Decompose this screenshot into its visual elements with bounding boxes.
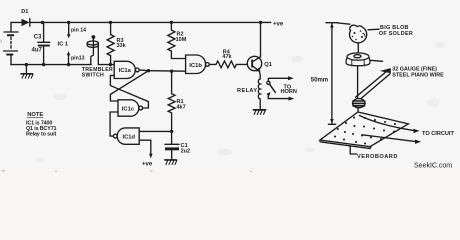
svg-text:IC1a: IC1a <box>119 68 132 74</box>
svg-text:IC1c: IC1c <box>122 106 135 112</box>
svg-text:STEEL PIANO WIRE: STEEL PIANO WIRE <box>392 73 444 79</box>
svg-text:HORN: HORN <box>281 89 297 95</box>
svg-text:D1: D1 <box>21 9 28 15</box>
svg-text:33k: 33k <box>117 43 127 49</box>
svg-text:NOTE: NOTE <box>27 112 43 118</box>
svg-text:IC 1: IC 1 <box>58 42 69 48</box>
svg-text:BIG BLOB: BIG BLOB <box>380 25 409 31</box>
svg-text:TO CIRCUIT: TO CIRCUIT <box>422 131 454 137</box>
svg-text:SWITCH: SWITCH <box>82 72 104 78</box>
svg-text:IC1d: IC1d <box>123 135 136 141</box>
svg-text:+ve: +ve <box>273 22 284 28</box>
svg-text:SeekIC.com: SeekIC.com <box>414 163 452 170</box>
svg-text:pin13: pin13 <box>71 55 85 61</box>
svg-text:+ve: +ve <box>142 162 153 168</box>
svg-text:4k7: 4k7 <box>177 105 186 111</box>
svg-text:32 GAUGE (FINE): 32 GAUGE (FINE) <box>392 66 437 72</box>
svg-text:VEROBOARD: VEROBOARD <box>357 154 398 160</box>
svg-text:RELAY: RELAY <box>237 88 257 94</box>
svg-text:C3: C3 <box>34 35 42 41</box>
svg-text:OF SOLDER: OF SOLDER <box>379 31 413 37</box>
svg-text:2u2: 2u2 <box>181 149 190 155</box>
svg-text:50mm: 50mm <box>311 77 328 83</box>
svg-text:IC1b: IC1b <box>189 63 202 69</box>
svg-text:10M: 10M <box>176 37 187 43</box>
svg-text:47k: 47k <box>222 54 232 60</box>
svg-text:Q1: Q1 <box>264 62 273 68</box>
svg-text:Relay to suit: Relay to suit <box>26 132 56 138</box>
svg-text:pin 14: pin 14 <box>71 28 86 34</box>
svg-text:4u7: 4u7 <box>32 48 43 54</box>
